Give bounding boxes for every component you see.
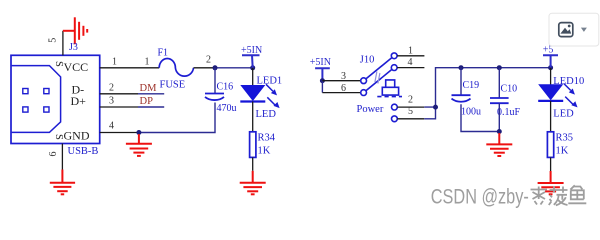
svg-text:DP: DP — [140, 96, 154, 107]
svg-text:1K: 1K — [258, 146, 271, 157]
capacitor C16 — [205, 94, 224, 101]
svg-text:5: 5 — [48, 38, 59, 43]
switch contact circle 1 — [391, 53, 397, 59]
power port +5IN — [241, 45, 262, 68]
wire +5IN to pins 3 and 6 — [321, 81, 323, 93]
svg-text:F1: F1 — [158, 48, 169, 59]
switch pin 4 line — [397, 67, 424, 69]
ground under R34 — [240, 171, 266, 195]
switch contact circle 2 — [392, 104, 398, 110]
fuse F1 — [159, 59, 193, 77]
pin 6 stub (bottom) — [61, 144, 63, 170]
junction node SW3 — [320, 78, 325, 83]
resistor R35 — [547, 132, 553, 158]
ground under R35 — [538, 171, 564, 194]
wire to C16 — [214, 68, 216, 94]
svg-text:1K: 1K — [556, 146, 569, 157]
wire C16 bottom to gnd rail — [139, 103, 215, 133]
junction node GND — [136, 130, 141, 135]
switch contact circle 5 — [392, 116, 398, 122]
resistor R34 — [250, 132, 256, 158]
LED10 symbol — [538, 84, 577, 107]
LED1 symbol — [240, 84, 278, 107]
ground at pin4 — [126, 134, 152, 156]
ground under C10 — [486, 133, 512, 156]
pin 3 line — [100, 106, 138, 108]
switch pin 1 line — [397, 55, 424, 57]
svg-text:+5IN: +5IN — [310, 57, 331, 68]
svg-text:6: 6 — [48, 152, 59, 157]
wire pins 2/5 to rail — [424, 68, 550, 119]
junction node LED1 — [250, 65, 255, 70]
svg-text:D+: D+ — [71, 94, 87, 108]
svg-text:R34: R34 — [258, 133, 276, 144]
svg-text:VCC: VCC — [64, 60, 89, 74]
svg-text:100u: 100u — [461, 107, 481, 118]
usb receptacle inner shape — [12, 66, 61, 133]
usb connector J? box — [11, 55, 100, 143]
svg-text:DM: DM — [140, 83, 158, 94]
svg-text:2: 2 — [109, 83, 114, 94]
junction node row2 — [433, 105, 438, 110]
wire C10 bottom — [498, 103, 500, 133]
svg-text:5: 5 — [408, 106, 413, 117]
svg-text:1: 1 — [145, 57, 150, 68]
wire LED1 to R34 — [252, 102, 254, 132]
svg-text:1: 1 — [408, 45, 413, 56]
svg-text:2: 2 — [206, 55, 211, 66]
wire to C19 — [460, 68, 462, 96]
svg-text:S: S — [53, 61, 64, 67]
svg-text:LED10: LED10 — [553, 76, 584, 87]
pushbutton symbol — [377, 80, 402, 97]
junction node LED10 — [548, 65, 553, 70]
pin 1 line — [100, 67, 160, 69]
svg-text:J10: J10 — [360, 55, 375, 66]
svg-text:FUSE: FUSE — [160, 80, 186, 91]
svg-text:2: 2 — [408, 95, 413, 106]
switch pin 3 line — [322, 80, 360, 82]
switch arm 3-1 — [366, 58, 392, 79]
svg-text:CSDN @zby-: CSDN @zby- — [431, 186, 529, 209]
pin 4 line — [100, 132, 139, 134]
watermark hanzi zao — [531, 187, 548, 205]
svg-text:J3: J3 — [69, 42, 78, 53]
svg-text:4: 4 — [109, 121, 114, 132]
pin 2 line — [100, 93, 138, 95]
wire net DM — [138, 93, 164, 95]
junction node C16 — [213, 65, 218, 70]
wire R35 to ground — [550, 157, 552, 171]
junction node gnd right — [497, 129, 502, 134]
watermark hanzi bo — [549, 187, 568, 206]
wire C19 bottom — [461, 104, 499, 131]
svg-text:3: 3 — [341, 71, 346, 82]
switch arm 6-4 — [366, 69, 392, 90]
watermark hanzi yu — [568, 185, 586, 203]
svg-text:LED: LED — [553, 109, 574, 120]
fuse pin 2 — [194, 67, 216, 69]
svg-text:+5IN: +5IN — [241, 45, 262, 56]
power port +5IN (J10) — [310, 57, 331, 81]
svg-text:C10: C10 — [501, 84, 518, 95]
svg-text:Power: Power — [357, 104, 384, 115]
wire R34 to ground — [252, 157, 254, 170]
wire LED10 top — [550, 68, 552, 85]
wire fuse to +5IN — [215, 67, 253, 69]
ground under pin6 — [50, 170, 75, 195]
switch contact circle 3 — [361, 78, 367, 84]
watermark CSDN — [431, 186, 529, 209]
svg-text:0.1uF: 0.1uF — [497, 107, 521, 118]
svg-text:LED1: LED1 — [257, 76, 283, 87]
switch pin 2 line — [397, 106, 424, 108]
svg-text:R35: R35 — [556, 133, 574, 144]
junction node C19 — [459, 65, 464, 70]
wire to C10 — [498, 68, 500, 98]
wire LED1 top — [252, 68, 254, 86]
capacitor C10 — [490, 98, 509, 103]
svg-text:470u: 470u — [217, 103, 237, 114]
pin 5 stub (top) — [62, 31, 64, 56]
svg-text:1: 1 — [112, 57, 117, 68]
wire net DP — [138, 106, 164, 108]
mechanical link hatch — [375, 72, 380, 84]
junction node C10 — [497, 65, 502, 70]
ground J3 (rotated right) — [63, 17, 87, 44]
switch pin 6 line — [322, 92, 360, 94]
power port +5 — [543, 45, 558, 68]
image toolbar overlay — [549, 13, 599, 46]
switch pin 5 line — [397, 118, 424, 120]
svg-text:C16: C16 — [217, 82, 234, 93]
svg-text:LED: LED — [256, 109, 277, 120]
svg-text:3: 3 — [109, 96, 114, 107]
svg-text:6: 6 — [341, 83, 346, 94]
svg-text:GND: GND — [64, 128, 90, 142]
svg-text:S: S — [53, 134, 64, 140]
svg-text:4: 4 — [408, 57, 413, 68]
svg-text:USB-B: USB-B — [68, 146, 99, 157]
capacitor C19 — [452, 95, 471, 102]
svg-text:C19: C19 — [463, 80, 480, 91]
switch contact circle 4 — [391, 65, 397, 71]
switch contact circle 6 — [361, 90, 367, 96]
wire LED10 to R35 — [550, 101, 552, 132]
